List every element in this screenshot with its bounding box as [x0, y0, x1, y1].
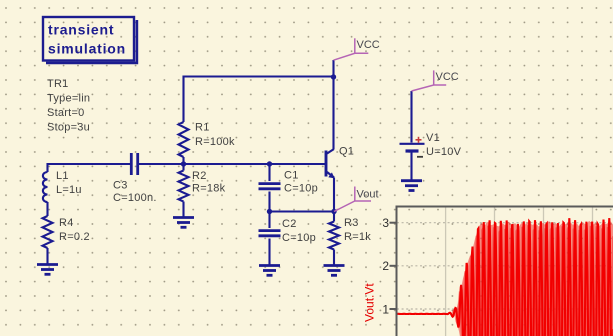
- svg-text:C2: C2: [282, 218, 297, 230]
- svg-text:VCC: VCC: [436, 71, 459, 83]
- svg-text:R3: R3: [344, 217, 359, 229]
- svg-text:3: 3: [382, 216, 389, 230]
- svg-text:Type=lin: Type=lin: [47, 93, 90, 105]
- svg-text:R=100k: R=100k: [195, 136, 235, 148]
- svg-text:V1: V1: [426, 132, 440, 144]
- svg-text:L=1u: L=1u: [56, 184, 82, 196]
- svg-text:C3: C3: [113, 180, 128, 192]
- svg-text:L1: L1: [56, 170, 69, 182]
- svg-text:Q1: Q1: [339, 146, 354, 158]
- svg-text:R4: R4: [59, 217, 74, 229]
- svg-text:simulation: simulation: [48, 41, 126, 57]
- svg-text:C=10p: C=10p: [282, 232, 316, 244]
- svg-text:transient: transient: [48, 22, 114, 38]
- svg-text:2: 2: [382, 259, 389, 273]
- svg-text:R=18k: R=18k: [192, 183, 226, 195]
- svg-text:R=0.2: R=0.2: [59, 231, 90, 243]
- svg-text:Stop=3u: Stop=3u: [47, 122, 90, 134]
- svg-text:R2: R2: [192, 170, 207, 182]
- svg-text:Vout.Vt: Vout.Vt: [363, 283, 377, 322]
- svg-text:1: 1: [382, 302, 389, 316]
- svg-text:R1: R1: [195, 122, 210, 134]
- svg-text:U=10V: U=10V: [426, 146, 462, 158]
- svg-text:C1: C1: [284, 170, 299, 182]
- svg-text:Vout: Vout: [357, 189, 379, 201]
- svg-text:C=10p: C=10p: [284, 183, 318, 195]
- svg-text:R=1k: R=1k: [344, 231, 371, 243]
- svg-text:VCC: VCC: [357, 39, 380, 51]
- svg-text:TR1: TR1: [47, 78, 69, 90]
- svg-text:C=100n.: C=100n.: [113, 192, 157, 204]
- svg-text:Start=0: Start=0: [47, 107, 85, 119]
